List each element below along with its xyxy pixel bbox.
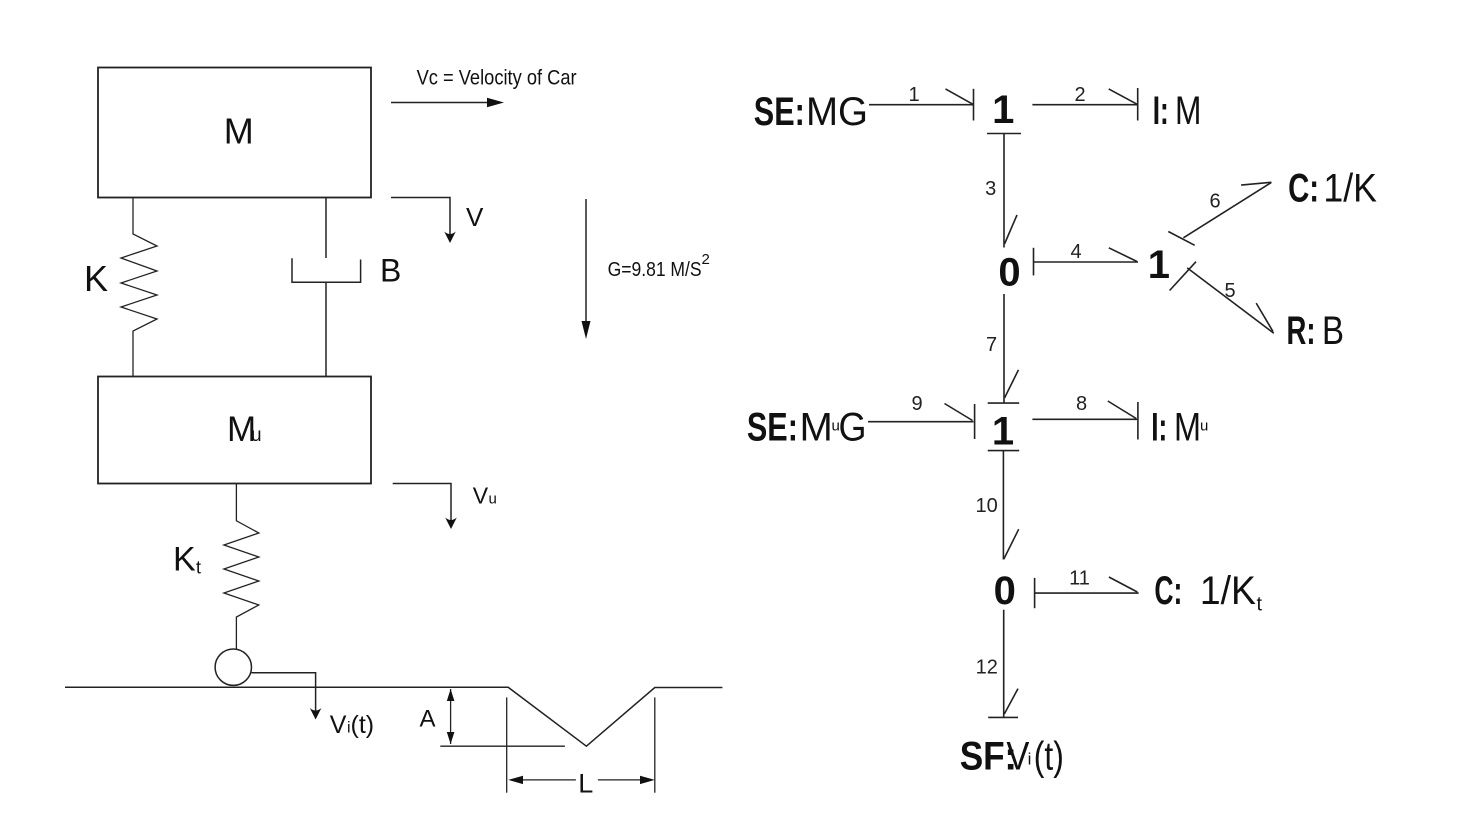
svg-text:t: t xyxy=(1257,594,1263,616)
damper B lower rod xyxy=(325,282,327,376)
svg-text:I:: I: xyxy=(1153,89,1169,133)
svg-text:i: i xyxy=(1028,749,1032,768)
L dimension ticks xyxy=(506,697,508,792)
bond 4 causal bar xyxy=(1033,248,1035,276)
svg-text:V: V xyxy=(1006,735,1029,779)
bond 2 half-arrow xyxy=(1109,89,1138,104)
bond 12 causal bar xyxy=(988,716,1018,718)
svg-text:MG: MG xyxy=(806,90,868,134)
svg-text:R:: R: xyxy=(1287,309,1316,353)
Vi(t) marker xyxy=(252,673,316,712)
svg-text:u: u xyxy=(251,425,262,446)
ground line with notch xyxy=(65,687,722,746)
svg-text:V: V xyxy=(473,482,489,508)
svg-text:V: V xyxy=(330,711,347,739)
bond 3 causal bar xyxy=(987,133,1021,135)
bond 12 xyxy=(1003,610,1005,718)
svg-text:1: 1 xyxy=(908,84,919,106)
Vc arrow xyxy=(391,102,490,104)
svg-text:6: 6 xyxy=(1209,191,1220,213)
damper B rod xyxy=(325,198,327,259)
svg-text:G: G xyxy=(839,406,867,450)
svg-text:M: M xyxy=(800,406,833,450)
svg-text:M: M xyxy=(224,111,254,152)
svg-text:u: u xyxy=(1200,418,1208,435)
bond 1 causal bar xyxy=(973,89,975,121)
svg-text:1/K: 1/K xyxy=(1200,569,1256,613)
V velocity marker xyxy=(391,198,450,237)
damper B cup xyxy=(292,258,361,282)
svg-text:M: M xyxy=(1174,406,1201,450)
bond 9 half-arrow xyxy=(945,404,973,421)
svg-text:11: 11 xyxy=(1069,568,1090,590)
svg-text:4: 4 xyxy=(1070,241,1081,263)
bond 6 causal stroke xyxy=(1168,232,1194,246)
bond 3 half-arrow xyxy=(1005,215,1018,244)
svg-text:I:: I: xyxy=(1151,406,1167,450)
bond 5 half-arrow xyxy=(1256,303,1273,331)
svg-text:0: 0 xyxy=(994,569,1016,613)
bond 9 xyxy=(868,421,974,423)
bond 8 causal bar xyxy=(1137,402,1139,440)
svg-text:1: 1 xyxy=(1148,243,1170,287)
svg-text:K: K xyxy=(173,540,196,578)
bond 12 half-arrow xyxy=(1004,689,1018,714)
bond 11 causal bar xyxy=(1034,578,1036,608)
bond 5 xyxy=(1187,268,1274,333)
bond 8 xyxy=(1032,418,1137,420)
svg-text:G=9.81 M/S: G=9.81 M/S xyxy=(608,259,702,281)
wheel circle xyxy=(215,649,251,685)
bond 1 half-arrow xyxy=(946,89,974,104)
svg-text:2: 2 xyxy=(1074,84,1085,106)
svg-text:u: u xyxy=(489,490,497,507)
svg-text:8: 8 xyxy=(1076,393,1087,415)
bond 7 causal bar xyxy=(988,402,1020,404)
mass M box xyxy=(98,68,371,198)
bond 7 half-arrow xyxy=(1005,370,1019,398)
svg-text:SE:: SE: xyxy=(754,90,805,134)
G gravity arrow xyxy=(585,199,587,324)
svg-text:K: K xyxy=(84,258,108,299)
bond 2 causal bar xyxy=(1137,88,1139,121)
svg-text:2: 2 xyxy=(702,251,710,268)
svg-text:5: 5 xyxy=(1224,280,1235,302)
bond 6 xyxy=(1183,183,1271,238)
bond 7 xyxy=(1003,294,1005,403)
svg-text:SF: SF xyxy=(960,735,1005,779)
svg-text:M: M xyxy=(1175,89,1201,133)
A dimension arrow xyxy=(450,689,452,744)
bond 5 causal stroke xyxy=(1170,262,1196,291)
bond 4 xyxy=(1034,261,1139,263)
bond 9 causal bar xyxy=(974,404,976,439)
svg-text:B: B xyxy=(380,253,401,289)
svg-text:t: t xyxy=(196,558,201,578)
svg-text:SE:: SE: xyxy=(747,406,798,450)
notch depth line xyxy=(440,745,565,747)
svg-text:C:: C: xyxy=(1288,167,1319,211)
svg-text:1: 1 xyxy=(992,88,1014,132)
svg-text:12: 12 xyxy=(976,656,998,678)
bond 10 xyxy=(1002,451,1004,560)
svg-text:L: L xyxy=(578,769,593,799)
bond 11 half-arrow xyxy=(1109,577,1137,592)
bond 3 xyxy=(1003,134,1005,248)
L dimension arrows xyxy=(520,779,576,781)
bond 2 xyxy=(1032,104,1137,106)
svg-text:10: 10 xyxy=(975,495,997,517)
bond 8 half-arrow xyxy=(1108,401,1136,419)
bond 10 half-arrow xyxy=(1004,529,1019,559)
bond 6 half-arrow xyxy=(1241,182,1271,185)
bond 1 xyxy=(869,104,974,106)
svg-text:(t): (t) xyxy=(351,711,375,739)
spring Kt xyxy=(224,484,259,650)
svg-text:B: B xyxy=(1322,309,1344,353)
bond 4 half-arrow xyxy=(1109,248,1137,262)
mass Mu box xyxy=(98,377,371,484)
svg-text:V: V xyxy=(466,202,484,232)
svg-text:9: 9 xyxy=(911,393,922,415)
svg-text:(t): (t) xyxy=(1034,735,1064,779)
svg-text:3: 3 xyxy=(985,178,996,200)
svg-text:Vc = Velocity of Car: Vc = Velocity of Car xyxy=(417,67,577,90)
svg-text:C:: C: xyxy=(1154,569,1182,613)
svg-text:1/K: 1/K xyxy=(1323,167,1377,211)
spring K xyxy=(121,198,157,377)
Vu velocity marker xyxy=(393,484,451,523)
svg-text:7: 7 xyxy=(986,334,997,356)
svg-text:0: 0 xyxy=(998,251,1020,295)
bond 11 xyxy=(1035,592,1139,594)
svg-text:A: A xyxy=(420,706,436,733)
bond 10 causal bar xyxy=(988,450,1020,452)
svg-text:1: 1 xyxy=(992,409,1014,453)
